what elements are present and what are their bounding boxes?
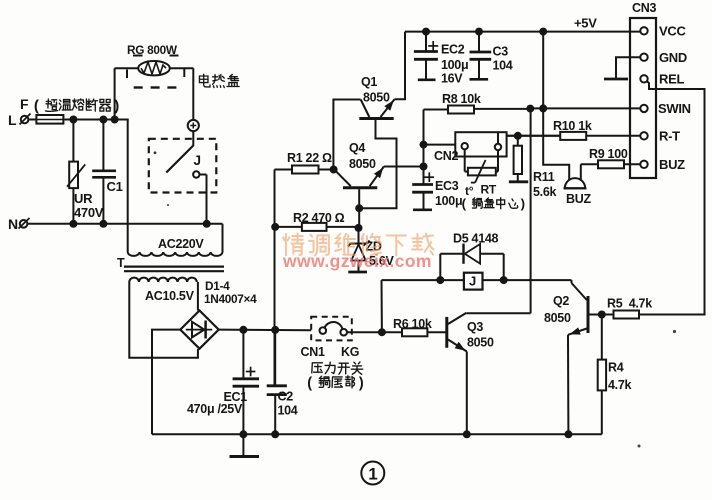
connector CN2 box [455,132,506,156]
junction dot R2 left [271,223,279,231]
figure number 1 [361,462,384,485]
svg-text:4.7k: 4.7k [608,378,631,392]
svg-text:AC220V: AC220V [158,237,204,251]
capacitor EC2 [414,32,438,80]
label R9 100 [589,147,628,161]
label R4 4.7k [608,361,631,393]
svg-text:(: ( [462,196,467,211]
resistor R4 [598,315,606,435]
transformer primary winding [128,252,223,256]
svg-text:1N4007×4: 1N4007×4 [204,292,257,306]
wire contact to N [200,175,207,224]
transistor Q2 [568,280,602,434]
terminal N [8,216,30,232]
svg-text:www.gzweix.com: www.gzweix.com [282,251,432,271]
capacitor C3 [470,32,492,80]
junction dot CN2 feed [420,141,428,149]
wire CN2 right pin up [498,132,560,144]
svg-text:C3: C3 [493,45,509,59]
label Q2 8050 [544,294,571,325]
junction dot R11 top [514,132,522,140]
CN3 pin REL [640,72,684,87]
svg-text:D1-4: D1-4 [205,279,230,293]
capacitor C1 [92,120,116,224]
CN3 pin BUZ [640,157,685,172]
wire L to primary (vertical) [127,120,129,253]
contact terminal (+) [188,120,199,131]
label C2 104 [278,390,298,418]
buzzer BUZ [543,108,586,188]
wire +5V rail [405,31,640,33]
label Q4 8050 [349,141,376,171]
varistor UR [67,120,85,224]
switch contact circle [193,171,199,177]
wire L line [63,119,128,121]
svg-text:470μ /25V: 470μ /25V [187,402,243,416]
svg-text:L: L [8,112,17,128]
wire SWIN row [530,107,640,109]
svg-text:SWIN: SWIN [658,101,691,116]
junction dot +5V/SWIN [539,104,547,112]
zener diode ZD [348,228,370,272]
wire RG to contact [170,68,194,120]
svg-text:CN1: CN1 [301,345,325,359]
junction dots bottom rail [239,430,572,438]
wire main DC row [219,329,312,332]
svg-text:BUZ: BUZ [659,157,685,172]
svg-text:R2 470 Ω: R2 470 Ω [293,211,345,225]
svg-text:J: J [194,153,201,168]
wire REL to R5 [639,81,705,315]
svg-text:BUZ: BUZ [566,192,591,206]
bridge rectifier D1-4 [180,311,218,349]
wire Q4 emitter to EC3 node [384,166,424,168]
svg-text:5.6k: 5.6k [533,185,556,199]
svg-text:R1 22 Ω: R1 22 Ω [287,151,332,165]
junction dot Q2 base node [598,311,606,319]
junction dot ZD top [355,224,363,232]
resistor R2 [275,223,358,231]
label F (over-temp fuse) [20,96,119,115]
label EC3 100u [435,179,462,208]
capacitor C2 [267,330,287,434]
resistor R6 [382,328,446,336]
label ZD 5.6V [364,240,395,269]
junction dot EC3 node [420,163,428,171]
svg-text:KG: KG [341,345,359,359]
fuse F [28,115,63,124]
wire +5V drop to SWIN [542,32,544,109]
resistor R11 [509,136,528,182]
switch blade J [166,131,200,173]
transistor Q4 [336,167,384,188]
svg-text:+5V: +5V [574,16,597,31]
wire long vertical to Q3 collector [530,109,532,314]
svg-text:F: F [20,96,29,112]
svg-text:CN3: CN3 [632,1,656,15]
svg-text:T: T [117,256,125,270]
label Q3 8050 [467,320,494,350]
svg-text:8050: 8050 [467,336,494,350]
wire bottom ground rail [152,433,602,435]
wire Q1 emitter to +5V [395,32,406,100]
terminal L [8,112,31,128]
label CN1 KG [301,345,360,359]
svg-text:UR: UR [74,191,93,206]
wire to CN2 left pin [424,144,456,146]
junction dot Q1/Q4 collector node [330,166,338,174]
svg-text:J: J [469,274,476,289]
relay coil J [464,273,483,290]
resistor R8 [424,106,531,114]
svg-text:CN2: CN2 [434,149,458,163]
svg-text:R8 10k: R8 10k [442,92,481,106]
capacitor EC3 [412,167,434,210]
svg-text:C2: C2 [278,390,294,404]
svg-text:GND: GND [659,50,687,65]
svg-text:R5 4.7k: R5 4.7k [607,297,652,311]
diode D5 [440,244,503,281]
junction dots on N line [69,220,210,228]
junction dot D5 left [436,276,444,284]
svg-text:R-T: R-T [659,129,680,144]
svg-text:Q1: Q1 [361,75,377,89]
svg-text:1: 1 [368,465,377,484]
wire RG riser [115,68,139,119]
resistor R10 [507,132,641,140]
resistor RG (heater) [138,61,170,75]
svg-text:16V: 16V [441,72,463,86]
CN3 pin VCC [640,24,686,39]
svg-text:100μ: 100μ [441,58,468,72]
svg-text:8050: 8050 [363,91,390,105]
CN2 pin circles [462,143,502,150]
svg-text:t°: t° [465,184,474,198]
svg-text:VCC: VCC [659,24,686,39]
resistor R9 [581,160,641,168]
thermistor RT [468,160,496,183]
ground symbol [230,434,260,456]
label R11 5.6k [533,170,556,199]
transistor Q3 [447,313,531,434]
svg-text:104: 104 [493,59,513,73]
wire Q1 base jog [359,120,396,208]
label R1 22ohm [287,151,332,165]
svg-text:104: 104 [278,404,298,418]
connector CN3 box [630,1,656,178]
CN3 pin R-T [640,129,680,144]
label +5V [574,16,597,31]
resistor R5 [602,311,705,319]
label R8 10k [442,92,481,106]
svg-text:100μ: 100μ [435,194,462,208]
label D5 4148 [453,232,499,246]
label D1-4 1N4007x4 [204,279,257,306]
label EC2 100u 16V [441,43,468,86]
transformer secondary winding [129,278,196,282]
wire secondary left to bridge bottom [129,282,198,358]
junction dots on +5V rail [422,28,547,36]
label AC220V [158,237,204,251]
ground at GND pin [604,57,640,79]
label AC10.5V [145,289,195,303]
svg-text:R10 1k: R10 1k [553,119,592,133]
junction dots on L line [69,116,118,124]
watermark [282,233,433,271]
junction dot EC1 top [239,326,247,334]
wire bridge left to ground rail [152,330,180,435]
junction dot R6 node [378,328,386,336]
wire relay row left riser [381,280,383,332]
label t RT [462,183,525,212]
wire secondary right to bridge top [197,282,199,311]
svg-text:EC3: EC3 [435,179,459,193]
svg-text:): ) [521,196,525,211]
junction dot R8 right [526,105,534,113]
label UR 470V [74,191,104,220]
pressure switch KG [320,322,348,336]
wire N to primary right [222,224,224,252]
svg-text:8050: 8050 [544,311,571,325]
svg-text:Q3: Q3 [467,320,483,334]
transformer core [117,256,224,271]
svg-text:EC2: EC2 [441,43,465,57]
CN3 pin SWIN [640,101,690,116]
svg-text:N: N [8,216,18,232]
wire KG to R6 node [347,331,382,333]
svg-text:D5 4148: D5 4148 [453,232,499,246]
heater plate dashed [127,56,184,88]
wire Q4 base stem [358,189,360,227]
svg-text:RT: RT [481,183,497,197]
label R6 10k [393,317,432,331]
wire N line [27,223,222,225]
svg-text:470V: 470V [74,205,104,220]
label RG 800W [127,43,178,57]
capacitor EC1 [233,330,259,435]
relay contact J dashed box [149,139,217,193]
CN3 pin GND [640,50,687,65]
svg-text:Q2: Q2 [553,294,569,308]
label R10 1k [553,119,592,133]
label C3 104 [493,45,513,73]
label heater plate [199,74,239,87]
resistor R1 [275,166,334,174]
junction dot D5 right [500,276,508,284]
label R5 4.7k [607,297,652,311]
junction dot Q4 base/Q1 [355,204,363,212]
wire R8 left drop [423,110,425,184]
svg-text:): ) [359,375,364,391]
svg-text:REL: REL [659,72,684,87]
svg-text:R6 10k: R6 10k [393,317,432,331]
label EC1 470u/25V [187,390,247,416]
svg-text:(: ( [307,375,312,391]
svg-text:R9 100: R9 100 [589,147,628,161]
label BUZ [566,192,591,206]
svg-text:C1: C1 [107,179,123,194]
wire Q1 collector loop [333,100,360,170]
label pressure switch [307,362,364,392]
svg-text:R4: R4 [608,361,624,375]
svg-text:AC10.5V: AC10.5V [145,289,195,303]
scan specks [154,151,677,447]
label Q1 8050 [361,75,390,105]
wire left bias rail [274,170,276,386]
junction dot C2 top [271,326,279,334]
label C1 [107,179,123,194]
wire CN2 pins to RT [465,149,498,171]
label CN2 [434,149,458,163]
transistor Q1 [359,99,394,118]
svg-text:8050: 8050 [349,157,376,171]
connector CN1 dashed box [311,317,352,341]
wire relay row [382,279,572,281]
svg-text:R11: R11 [533,170,555,184]
svg-text:Q4: Q4 [349,141,365,155]
label R2 470ohm [293,211,345,225]
